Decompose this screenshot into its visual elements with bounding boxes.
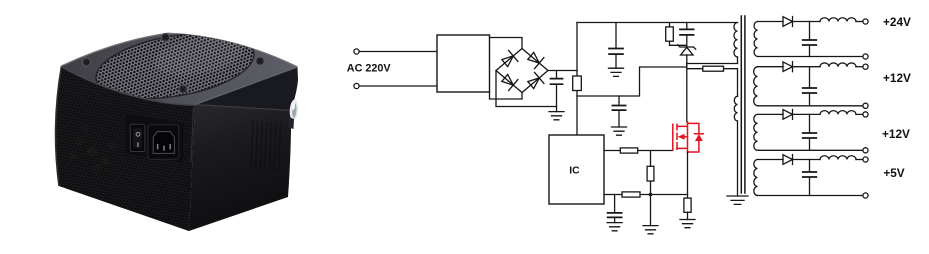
svg-text:AC 220V: AC 220V bbox=[347, 62, 392, 74]
transistor Q1 MOSFET bbox=[673, 122, 703, 153]
transformer T1 secondary winding S1 bbox=[754, 22, 757, 57]
wire filter to bridge bottom (AC2) bbox=[490, 92, 523, 99]
resistor R7 sense bbox=[684, 198, 691, 212]
capacitor C4 bbox=[618, 96, 620, 105]
capacitor C2 bbox=[615, 23, 617, 49]
inductor L3 row 3 bbox=[820, 111, 856, 115]
PSU screws bbox=[82, 58, 90, 66]
transformer T1 secondary winding S3 bbox=[754, 114, 758, 150]
ground C4 bbox=[612, 127, 627, 135]
wire inductor to terminal row 2 bbox=[856, 66, 863, 68]
wire diode to node row 1 bbox=[793, 21, 821, 23]
svg-text:+5V: +5V bbox=[883, 166, 904, 180]
ground C2 bbox=[609, 68, 624, 76]
wire return row 2 bbox=[758, 105, 863, 107]
node return terminal row 3 bbox=[863, 148, 868, 153]
node return terminal row 4 bbox=[863, 193, 868, 198]
capacitor C3 snubber bbox=[686, 23, 688, 30]
svg-text:IC: IC bbox=[569, 165, 580, 176]
capacitor C1 bulk bbox=[556, 71, 558, 79]
transformer T1 secondary winding S2 bbox=[754, 67, 758, 106]
diode D7 rectifier row 2 bbox=[783, 62, 793, 72]
wire diode to node row 3 bbox=[793, 113, 821, 115]
ground C5 bbox=[607, 223, 622, 231]
node output terminal row 2 bbox=[863, 64, 868, 69]
wire filter to bridge top (AC1) bbox=[490, 38, 523, 49]
capacitor C5 bbox=[614, 195, 616, 213]
inductor L2 row 2 bbox=[820, 63, 856, 67]
wire top rail bbox=[577, 22, 738, 24]
wire inductor to terminal row 1 bbox=[856, 21, 863, 23]
svg-text:+12V: +12V bbox=[882, 127, 910, 141]
wire return row 1 bbox=[758, 56, 863, 58]
wire secondary row 4 top bbox=[758, 159, 784, 161]
wire bridge negative to ground bbox=[496, 71, 557, 107]
transformer T1 core bbox=[741, 16, 745, 193]
node return terminal row 1 bbox=[863, 54, 868, 59]
node output terminal row 3 bbox=[863, 112, 868, 117]
resistor R2 snubber bbox=[670, 23, 687, 46]
capacitor C6 output row 1 bbox=[809, 22, 811, 40]
node output terminal row 4 bbox=[863, 157, 868, 162]
wire IC gate drive bbox=[604, 150, 673, 152]
resistor R3 aux feed bbox=[687, 69, 738, 97]
resistor R4 gate bbox=[620, 148, 637, 153]
diode bridge D3 (bottom-left edge) bbox=[502, 74, 518, 90]
node return terminal row 2 bbox=[863, 103, 868, 108]
PSU cable clip bbox=[289, 99, 299, 121]
wire B+ node to drain junction bbox=[577, 67, 687, 96]
ground sense bbox=[643, 226, 658, 234]
wire return row 4 bbox=[758, 195, 863, 197]
wire secondary row 2 top bbox=[758, 66, 784, 68]
diode bridge D1 (top-left edge) bbox=[502, 50, 518, 66]
wire B+ rail vertical bbox=[576, 23, 578, 136]
diode D9 rectifier row 4 bbox=[783, 155, 793, 165]
capacitor C7 output row 2 bbox=[809, 67, 811, 88]
transformer T1 aux winding bbox=[734, 96, 737, 121]
wire secondary row 1 top bbox=[758, 21, 784, 23]
wire to primary bottom bbox=[687, 57, 738, 64]
diode D5 clamp zener bbox=[678, 45, 696, 49]
wire aux to ground bbox=[737, 121, 739, 196]
node AC terminal bottom bbox=[354, 83, 359, 88]
inductor L1 row 1 bbox=[820, 18, 856, 22]
wire inductor to terminal row 4 bbox=[856, 159, 863, 161]
capacitor C9 output row 4 bbox=[809, 160, 811, 172]
wire diode to node row 2 bbox=[793, 66, 821, 68]
resistor R6 divider bbox=[650, 151, 652, 195]
transformer T1 secondary winding S4 bbox=[754, 160, 758, 196]
transformer T1 primary winding bbox=[734, 23, 738, 57]
PSU fan grille bbox=[91, 23, 259, 109]
PSU power switch and IEC inlet bbox=[125, 114, 184, 163]
resistor R1 startup bbox=[573, 76, 582, 91]
PSU photo: natural image of black power supply unit bbox=[56, 23, 299, 231]
bridge rectifier BR1 diamond bbox=[496, 49, 548, 93]
node sense junction bbox=[649, 193, 653, 197]
capacitor C8 output row 3 bbox=[809, 114, 811, 132]
op-amp U1 PWM controller IC bbox=[549, 135, 604, 204]
svg-text:+12V: +12V bbox=[883, 71, 911, 85]
diode D8 rectifier row 3 bbox=[783, 109, 793, 119]
node AC terminal top bbox=[354, 49, 359, 54]
wire bridge positive to B+ rail bbox=[548, 70, 577, 72]
ground source bbox=[680, 220, 695, 228]
resistor R5 bbox=[622, 192, 640, 197]
inductor L4 row 4 bbox=[820, 156, 856, 160]
wire IC sense bbox=[604, 194, 688, 196]
ground transformer bbox=[727, 196, 748, 204]
wire AC line top bbox=[359, 51, 437, 53]
wire AC line bottom bbox=[359, 85, 437, 87]
wire junction to ground bbox=[650, 195, 652, 226]
wire secondary row 3 top bbox=[758, 113, 784, 115]
EMI filter block U2 bbox=[437, 35, 490, 92]
wire source bbox=[687, 152, 689, 198]
wire inductor to terminal row 3 bbox=[856, 113, 863, 115]
diode bridge D2 (top-right edge) bbox=[528, 52, 544, 68]
node output terminal row 1 bbox=[863, 19, 868, 24]
wire return row 3 bbox=[758, 149, 863, 151]
wire diode to node row 4 bbox=[793, 159, 821, 161]
ground bridge filter bbox=[549, 112, 564, 120]
wire drain vertical bbox=[686, 63, 688, 122]
diode D6 rectifier row 1 bbox=[783, 17, 793, 27]
diode bridge D4 (bottom-right edge) bbox=[528, 72, 544, 88]
svg-text:+24V: +24V bbox=[883, 15, 911, 29]
